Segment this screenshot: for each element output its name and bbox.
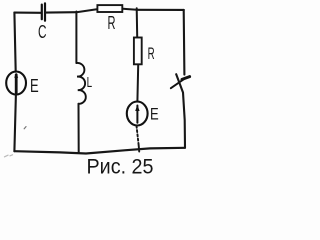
wire middle branch upper: [75, 12, 77, 64]
switch S blade: [171, 78, 186, 88]
inductor L coil: [76, 63, 85, 104]
wire right edge upper: [183, 10, 186, 75]
svg-text:E: E: [150, 105, 159, 124]
source E2 circle: [127, 102, 148, 126]
wire left branch upper: [14, 13, 15, 72]
speck dash bottom-left margin: [5, 155, 13, 157]
source E1 circle: [6, 72, 26, 95]
svg-text:C: C: [38, 22, 47, 42]
wire left branch lower: [14, 95, 16, 152]
wire resistor R1 to right junction: [123, 9, 137, 10]
svg-text:E: E: [30, 76, 39, 96]
svg-text:L: L: [87, 74, 93, 91]
resistor R2 (vertical): [134, 38, 142, 65]
wire source E2 bottom solid stub: [138, 146, 141, 152]
svg-text:R: R: [108, 13, 116, 33]
switch S tick: [182, 77, 190, 80]
svg-text:Рис. 25: Рис. 25: [87, 155, 154, 179]
resistor R1 (horizontal): [97, 5, 122, 12]
speck near node below E1: [24, 127, 26, 129]
wire bottom: [14, 148, 185, 154]
source E1 arrow: [14, 73, 18, 93]
wire capacitor to middle junction: [46, 11, 77, 14]
source E2 arrow: [135, 105, 139, 123]
wire top-left (corner to capacitor): [14, 12, 41, 14]
svg-text:R: R: [148, 44, 155, 63]
capacitor C: [42, 3, 45, 20]
wire right junction to top-right corner: [137, 9, 184, 11]
wire resistor R2 to source E2: [136, 65, 139, 101]
wire middle junction to resistor R1: [77, 9, 97, 12]
wire right branch from junction to resistor R2: [136, 8, 139, 37]
wire right edge lower: [176, 74, 185, 148]
wire middle branch lower: [78, 104, 80, 153]
wire source E2 to bottom (dashed): [137, 126, 139, 146]
